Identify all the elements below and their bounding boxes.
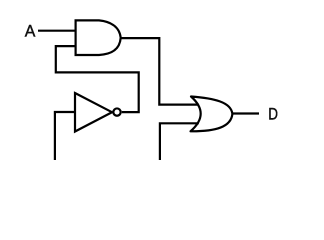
wire inverter input from bottom edge (55, 112, 75, 160)
wire A to AND gate top input (38, 30, 76, 32)
inverter bubble (113, 108, 120, 115)
wire AND output to OR gate top input (121, 38, 199, 105)
svg-text:A: A (25, 22, 36, 41)
AND gate U1 (76, 20, 121, 55)
wire AND gate bottom input feedback from inverter output (56, 46, 139, 112)
wire OR gate bottom input from bottom edge (160, 123, 199, 160)
wire OR output to D (232, 112, 259, 114)
OR gate U3 (191, 97, 233, 132)
svg-text:D: D (268, 104, 278, 123)
inverter U2 (75, 93, 112, 132)
